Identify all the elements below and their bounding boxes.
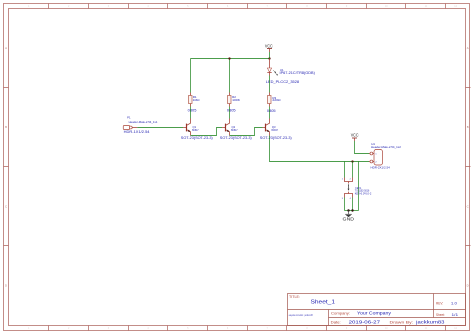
svg-text:Sheet:: Sheet: [436, 313, 445, 317]
svg-text:C: C [467, 205, 469, 209]
connector H1 [369, 150, 383, 166]
wire: VCC to H1 pin1 [355, 141, 370, 154]
node junction at rail/VCC [268, 57, 270, 59]
svg-text:TS-1102-5016: TS-1102-5016 [355, 189, 370, 193]
resistor R2 [228, 93, 232, 107]
wire: R3 to Q3 collector [269, 107, 271, 119]
svg-text:HDR-1X1/2.54: HDR-1X1/2.54 [124, 130, 150, 134]
svg-text:GND: GND [343, 217, 355, 222]
svg-text:D: D [467, 284, 469, 288]
ground GND [343, 211, 355, 222]
svg-text:1/1: 1/1 [452, 313, 459, 317]
wire: KEY1 pin4 to bottom bar [352, 198, 354, 211]
svg-text:D: D [5, 284, 7, 288]
svg-text:SOT-23(SOT-23-3): SOT-23(SOT-23-3) [181, 136, 213, 140]
svg-text:Header-Male-2.54_1x2: Header-Male-2.54_1x2 [371, 145, 401, 149]
svg-text:KEY-6.0*6.0-2: KEY-6.0*6.0-2 [355, 192, 372, 196]
wire: VCC stem to junction [269, 52, 271, 59]
svg-text:1MΩ: 1MΩ [193, 98, 201, 102]
wire: R1 drop from rail [190, 59, 192, 93]
svg-text:C: C [5, 205, 7, 209]
key switch KEY1 [345, 178, 353, 198]
wire: Q2 emitter to Q3 base [230, 128, 263, 136]
svg-text:BC847: BC847 [192, 128, 199, 132]
svg-text:0805: 0805 [188, 107, 197, 112]
svg-text:220Ω: 220Ω [272, 98, 281, 102]
resistor R1 [189, 93, 193, 107]
node junction at rail/R2 [228, 57, 230, 59]
svg-text:B: B [467, 125, 469, 129]
svg-text:100K: 100K [232, 98, 240, 102]
svg-text:A: A [467, 46, 469, 50]
svg-text:BC847: BC847 [231, 128, 238, 132]
wire: P1 to Q1 base [137, 127, 183, 129]
svg-text:jackkum83: jackkum83 [415, 319, 446, 324]
wire: R2 to Q2 collector [229, 107, 231, 119]
resistor R3 [268, 93, 272, 107]
svg-text:0805: 0805 [267, 108, 276, 113]
wire: Q1 emitter to Q2 base [191, 128, 223, 136]
svg-text:2: 2 [350, 179, 351, 181]
wire: LED cathode to R3 [269, 76, 271, 93]
transistor Q3 [263, 119, 270, 136]
node junction at key pin4 / bar [351, 209, 353, 211]
svg-text:VCC: VCC [351, 133, 359, 138]
svg-text:3: 3 [342, 198, 343, 200]
wire: Q3 emitter down and right to H1 pin2 [270, 136, 370, 162]
node junction on emitter net [351, 160, 353, 162]
svg-text:0805: 0805 [227, 107, 236, 112]
transistor Q2 [222, 119, 230, 136]
wire: riser to KEY1 pin A [344, 162, 346, 178]
svg-text:1.0: 1.0 [451, 302, 457, 306]
svg-text:P1: P1 [127, 116, 131, 120]
svg-text:Date:: Date: [331, 320, 341, 324]
svg-text:VCC: VCC [265, 44, 273, 49]
wire: R2 drop from rail [229, 59, 231, 93]
svg-text:SOT-23(SOT-23-3): SOT-23(SOT-23-3) [260, 136, 292, 140]
wire: bypass vertical to bottom bar [358, 162, 360, 211]
LED U1 [267, 59, 278, 76]
svg-text:IP67-21C/TR8(GDB): IP67-21C/TR8(GDB) [280, 71, 315, 75]
connector P1 [123, 126, 137, 130]
wire: bottom bar [345, 210, 359, 212]
svg-text:2019-06-27: 2019-06-27 [349, 319, 381, 324]
power flag VCC (top) [265, 44, 273, 52]
title block [288, 294, 466, 326]
svg-text:Header-Male-2.54_1x1: Header-Male-2.54_1x1 [129, 120, 158, 124]
wire: riser to KEY1 pin B [352, 162, 354, 178]
transistor Q1 [183, 119, 191, 136]
svg-text:1: 1 [342, 179, 343, 181]
svg-text:B: B [5, 125, 7, 129]
svg-text:Drawn By:: Drawn By: [390, 320, 414, 324]
wire: KEY1 pin3 to bottom bar [344, 198, 346, 211]
wire: R1 to Q1 collector [190, 107, 192, 119]
svg-text:TITLE:: TITLE: [289, 295, 300, 299]
power flag VCC (right) [351, 133, 359, 142]
svg-text:BC847: BC847 [272, 128, 279, 132]
svg-text:Sheet_1: Sheet_1 [311, 300, 336, 306]
node junction at GND stem [347, 209, 349, 211]
svg-text:HDR-2X1/2.54: HDR-2X1/2.54 [371, 166, 391, 170]
svg-text:A: A [5, 46, 7, 50]
svg-text:Company:: Company: [331, 311, 350, 316]
svg-text:REV:: REV: [436, 302, 443, 306]
svg-text:LED_PLCC2_3528: LED_PLCC2_3528 [266, 79, 300, 84]
wire: VCC rail to R1/R2 top [191, 58, 270, 60]
svg-text:Your Company: Your Company [357, 311, 392, 316]
svg-text:SOT-23(SOT-23-3): SOT-23(SOT-23-3) [220, 136, 252, 140]
